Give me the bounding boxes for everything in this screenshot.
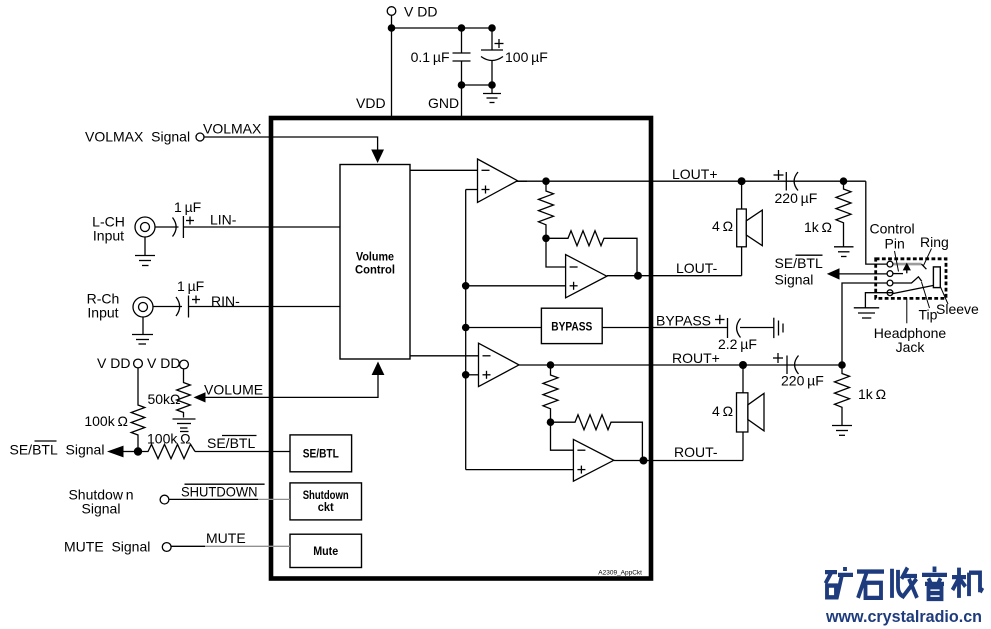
arrow into volume control bottom (372, 362, 385, 376)
svg-text:SE/BTL Signal: SE/BTL Signal (10, 442, 105, 458)
SE/BTL block (290, 435, 352, 472)
op-amp U1C (479, 343, 520, 386)
leader Sleeve (940, 287, 948, 305)
BYPASS block (541, 308, 602, 343)
svg-text:Ring: Ring (920, 234, 949, 250)
svg-text:4 Ω: 4 Ω (712, 403, 733, 419)
ground RL2 (832, 426, 852, 436)
wire RF junction to U1B inverting input (546, 238, 566, 267)
svg-text:220 µF: 220 µF (781, 373, 824, 389)
wire bus to BYPASS block (466, 327, 542, 329)
capacitor C6 2.2uF (715, 315, 741, 338)
resistor RL2 1k (835, 365, 850, 426)
wire J1 to C3 (155, 226, 179, 228)
terminal VDD2 (180, 360, 189, 369)
jack tip contact (893, 277, 922, 283)
wire speaker L top (741, 181, 743, 209)
svg-text:Pin: Pin (885, 236, 905, 252)
ground jack (854, 308, 879, 318)
capacitor C5 220uF (774, 170, 799, 191)
svg-text:Control: Control (355, 263, 395, 277)
wire VC to U1C inverting input (410, 355, 479, 357)
wire speaker R bottom (742, 432, 744, 461)
ground sideways bypass (774, 318, 783, 338)
terminal VOLMAX (196, 133, 204, 141)
svg-text:A2309_AppCkt: A2309_AppCkt (598, 570, 642, 577)
svg-text:0.1 µF: 0.1 µF (411, 49, 450, 65)
capacitor C2 100uF (481, 28, 504, 85)
svg-text:SHUTDOWN: SHUTDOWN (181, 484, 258, 500)
speaker LS1 (737, 209, 763, 247)
wire VDD horizontal rail (392, 27, 493, 29)
arrow SE/BTL left (107, 446, 124, 458)
svg-text:Volume: Volume (356, 250, 394, 264)
svg-text:LOUT+: LOUT+ (672, 166, 718, 182)
svg-text:Input: Input (87, 305, 118, 321)
wire jack ground (865, 293, 893, 308)
leader Headphone Jack (906, 298, 908, 323)
op-amp U1D (573, 439, 613, 481)
watermark logo crystalradio (825, 567, 983, 599)
node bus U1C (462, 371, 470, 379)
node after C7 (838, 361, 846, 369)
node bus BYPASS (462, 324, 470, 332)
svg-text:V DD: V DD (404, 4, 437, 20)
node U1C output (547, 361, 555, 369)
leader Ring (924, 249, 932, 266)
ground VR1 (173, 419, 196, 428)
capacitor C7 220uF (773, 353, 799, 374)
wiper arrow VR1 (194, 392, 206, 402)
wire LOUT- (607, 275, 742, 277)
wire VOLMAX (204, 137, 378, 150)
svg-text:VOLMAX Signal: VOLMAX Signal (85, 129, 190, 145)
resistor RF2 feedback horizontal (546, 231, 637, 276)
resistor RF4 feedback horizontal (551, 415, 643, 461)
svg-text:VOLUME: VOLUME (204, 382, 263, 398)
svg-text:Signal: Signal (775, 272, 814, 288)
wire jack tip down (842, 283, 887, 365)
Mute block (290, 534, 362, 567)
wire LOUT+ (518, 180, 866, 182)
node VDD rail junctions (388, 24, 396, 32)
node RF1 bottom (542, 235, 550, 243)
node RF3 bottom (547, 418, 555, 426)
speaker LS2 (737, 393, 765, 432)
wire bus to U1A non-inverting input (466, 189, 478, 191)
leader Tip (922, 282, 930, 308)
ground RL1 (834, 247, 854, 257)
node GND rail junctions (458, 81, 466, 89)
arrow into volume control top (371, 150, 384, 164)
node SE/BTL divider (134, 447, 142, 455)
svg-text:SE/BTL: SE/BTL (775, 255, 823, 271)
jack sleeve contact diagonal (892, 285, 938, 294)
wire VOLUME (206, 375, 379, 397)
op-amp U1A (478, 159, 518, 202)
svg-text:1k Ω: 1k Ω (804, 219, 832, 235)
node LOUT+ speaker tap (738, 177, 746, 185)
wire SHUTDOWN (169, 498, 258, 500)
terminal VDD (387, 7, 396, 16)
svg-text:VDD: VDD (356, 95, 386, 111)
node ROUT+ speaker tap (739, 361, 747, 369)
svg-text:V DD: V DD (147, 355, 180, 371)
ground J1 (135, 237, 155, 266)
wire arrow to node (124, 451, 139, 453)
svg-text:Mute: Mute (313, 544, 338, 558)
wire GND rail (462, 84, 493, 86)
leader Pin (895, 251, 899, 272)
wire VDD vertical (391, 15, 393, 117)
resistor R2 100k (138, 444, 195, 458)
svg-text:ROUT+: ROUT+ (672, 350, 720, 366)
svg-text:GND: GND (428, 95, 459, 111)
capacitor C4 1uF (176, 296, 200, 318)
resistor RF1 feedback (539, 181, 554, 238)
ground top (483, 85, 501, 103)
wire bus to U1D non-inverting input (466, 469, 574, 471)
wire ROUT- (614, 460, 743, 462)
wire RF3 junction to U1D inverting input (551, 422, 574, 450)
wire speaker R top (742, 365, 744, 393)
node bus U1B (462, 282, 470, 290)
svg-text:MUTE: MUTE (206, 530, 246, 546)
wire SE/BTL to jack (840, 273, 888, 275)
volume control block (340, 165, 410, 360)
potentiometer VR1 50k (177, 368, 191, 417)
resistor RL1 1k (836, 181, 851, 247)
svg-text:4 Ω: 4 Ω (712, 218, 733, 234)
op-amp U1B (566, 255, 607, 298)
Shutdown ckt block (290, 483, 362, 520)
svg-text:Tip: Tip (919, 307, 938, 323)
node after C5 (840, 177, 848, 185)
IC boundary U1 (271, 118, 651, 579)
wire bypass bus vertical (465, 190, 467, 470)
svg-text:VOLMAX: VOLMAX (203, 121, 262, 137)
terminal SHUTDOWN (160, 495, 169, 504)
node U1D output (640, 457, 648, 465)
svg-text:BYPASS: BYPASS (656, 313, 711, 329)
svg-text:Jack: Jack (896, 339, 926, 355)
svg-text:MUTE Signal: MUTE Signal (64, 539, 150, 555)
wire LOUT+ to jack control (866, 181, 887, 264)
wire RIN- (189, 306, 341, 308)
wire SE/BTL to block (195, 451, 290, 453)
svg-text:1k Ω: 1k Ω (858, 386, 886, 402)
wire speaker L bottom (741, 247, 743, 276)
svg-text:LOUT-: LOUT- (676, 260, 718, 276)
wire ROUT+ (519, 364, 842, 366)
svg-text:1 µF: 1 µF (174, 199, 201, 215)
terminal VDD1 (134, 359, 143, 368)
wire VC to U1A inverting input (410, 169, 478, 171)
wire BYPASS out (602, 327, 727, 329)
svg-text:Control: Control (870, 221, 915, 237)
svg-text:Sleeve: Sleeve (936, 301, 979, 317)
capacitor C1 0.1uF (453, 28, 471, 85)
svg-text:SE/BTL: SE/BTL (207, 435, 255, 451)
wire MUTE (171, 545, 205, 547)
terminal MUTE (162, 543, 171, 552)
RCA jack J2 (133, 297, 153, 317)
svg-text:Signal: Signal (82, 501, 121, 517)
wire J2 to C4 (153, 306, 182, 308)
jack sleeve bar (933, 267, 940, 288)
svg-text:1 µF: 1 µF (177, 278, 204, 294)
svg-text:SE/BTL: SE/BTL (303, 447, 339, 461)
capacitor C3 1uF (173, 216, 195, 238)
svg-text:220 µF: 220 µF (775, 190, 818, 206)
svg-text:www.crystalradio.cn: www.crystalradio.cn (825, 607, 982, 626)
svg-text:BYPASS: BYPASS (551, 320, 592, 334)
svg-text:100 µF: 100 µF (505, 49, 548, 65)
jack switch arrow (906, 270, 908, 274)
headphone jack J3 dashed box (876, 259, 946, 299)
svg-text:V DD: V DD (97, 355, 130, 371)
svg-text:ckt: ckt (318, 500, 334, 514)
jack contact circles (887, 261, 893, 295)
arrow SE/BTL right (827, 268, 840, 279)
wire bus to U1B non-inverting input (466, 285, 566, 287)
svg-text:LIN-: LIN- (210, 212, 237, 228)
wire LIN- (183, 226, 340, 228)
resistor R1 100k (131, 368, 145, 448)
ground J2 (132, 317, 153, 344)
svg-text:50kΩ: 50kΩ (147, 391, 180, 407)
jack ring contact gray (894, 263, 922, 266)
svg-text:Input: Input (93, 228, 124, 244)
svg-text:100k Ω: 100k Ω (147, 431, 191, 447)
wire GND pin (461, 85, 463, 117)
svg-text:ROUT-: ROUT- (674, 444, 718, 460)
svg-text:2.2 µF: 2.2 µF (718, 336, 757, 352)
wire C6 to termination (740, 327, 774, 329)
svg-text:100k Ω: 100k Ω (84, 413, 128, 429)
node U1A output (542, 177, 550, 185)
resistor RF3 feedback (543, 365, 558, 422)
RCA jack J1 (135, 217, 155, 237)
node U1B output (634, 272, 642, 280)
wire bus to U1C non-inverting input (466, 374, 479, 376)
